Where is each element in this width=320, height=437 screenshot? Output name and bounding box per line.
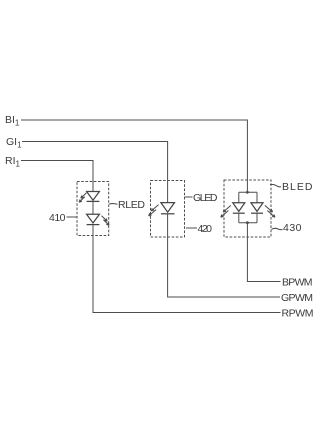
LED D4 left in block 430 bbox=[233, 203, 245, 213]
wire RI1 input to block 410 top bbox=[21, 161, 93, 182]
LED D5 emission arrows bbox=[265, 205, 275, 217]
wire 410 box top to diode D1 bbox=[92, 182, 94, 192]
label 430 leader bbox=[272, 228, 283, 229]
LED D4 emission arrows bbox=[221, 205, 231, 217]
LED block 420 dashed box bbox=[151, 181, 185, 238]
label 410 leader bbox=[67, 216, 77, 218]
wire top bar of parallel pair bbox=[239, 191, 257, 193]
wire block 430 bottom to BPWM output bbox=[247, 237, 280, 282]
LED block 410 dashed box bbox=[77, 182, 109, 236]
svg-text:410: 410 bbox=[49, 212, 66, 224]
LED D1 in block 410 bbox=[87, 192, 100, 202]
LED D3 emission arrows bbox=[149, 205, 159, 216]
net BLED leader bbox=[270, 184, 281, 187]
wire bottom bar of parallel pair bbox=[239, 222, 257, 224]
svg-text:BLED: BLED bbox=[282, 181, 313, 193]
LED D5 right in block 430 bbox=[251, 203, 263, 213]
svg-text:420: 420 bbox=[198, 223, 213, 235]
LED D3 in block 420 bbox=[161, 203, 175, 214]
wire bottom node to 430 box bottom bbox=[246, 223, 248, 237]
svg-text:BPWM: BPWM bbox=[282, 277, 313, 289]
LED D1 emission arrows bbox=[79, 193, 86, 202]
LED D2 in block 410 bbox=[87, 214, 100, 224]
svg-text:RLED: RLED bbox=[118, 199, 145, 211]
wire 430 box top to parallel node bbox=[246, 180, 248, 192]
wire right branch bottom stub bbox=[256, 213, 258, 223]
net GLED leader bbox=[185, 196, 193, 198]
wire D3 to 420 box bottom bbox=[167, 214, 169, 237]
wire D2 to 410 box bottom bbox=[92, 225, 94, 236]
wire left branch bottom stub bbox=[238, 213, 240, 223]
svg-text:GLED: GLED bbox=[193, 192, 218, 204]
wire between D1 and D2 bbox=[92, 201, 94, 214]
svg-text:430: 430 bbox=[283, 222, 302, 234]
wire left branch top stub bbox=[238, 192, 240, 203]
LED D2 emission arrows bbox=[102, 216, 110, 225]
net RLED leader bbox=[109, 203, 117, 206]
wire block 410 bottom to RPWM output bbox=[93, 236, 281, 313]
wire GI1 input to block 420 top bbox=[22, 142, 168, 181]
node top junction of parallel LEDs bbox=[246, 191, 249, 194]
wire BI1 input to block 430 top bbox=[21, 120, 247, 180]
svg-text:GPWM: GPWM bbox=[281, 292, 313, 304]
label 420 leader bbox=[186, 227, 197, 229]
wire 420 box top to diode D3 bbox=[167, 181, 169, 203]
wire right branch top stub bbox=[256, 192, 258, 203]
wire block 420 bottom to GPWM output bbox=[168, 237, 280, 297]
LED block 430 dashed box bbox=[224, 180, 271, 237]
node bottom junction of parallel LEDs bbox=[246, 221, 249, 224]
svg-text:RPWM: RPWM bbox=[282, 308, 314, 320]
